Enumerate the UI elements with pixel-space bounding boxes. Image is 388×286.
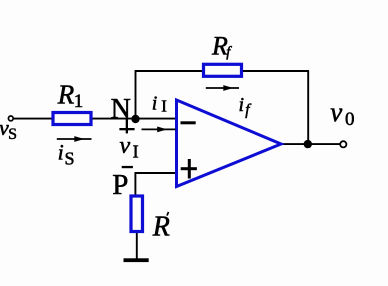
svg-text:1: 1: [74, 91, 84, 112]
svg-text:R: R: [57, 79, 75, 109]
svg-text:v: v: [120, 133, 131, 159]
svg-text:S: S: [65, 149, 75, 169]
svg-text:S: S: [8, 126, 17, 143]
svg-text:I: I: [133, 141, 139, 161]
svg-text:v: v: [330, 97, 342, 127]
svg-text:P: P: [112, 169, 128, 201]
svg-text:i: i: [152, 93, 158, 115]
svg-text:i: i: [58, 140, 64, 165]
svg-text:i: i: [239, 94, 245, 116]
svg-text:0: 0: [345, 109, 355, 130]
svg-text:I: I: [161, 96, 167, 115]
svg-text:R: R: [152, 212, 170, 243]
svg-text:N: N: [111, 94, 131, 125]
